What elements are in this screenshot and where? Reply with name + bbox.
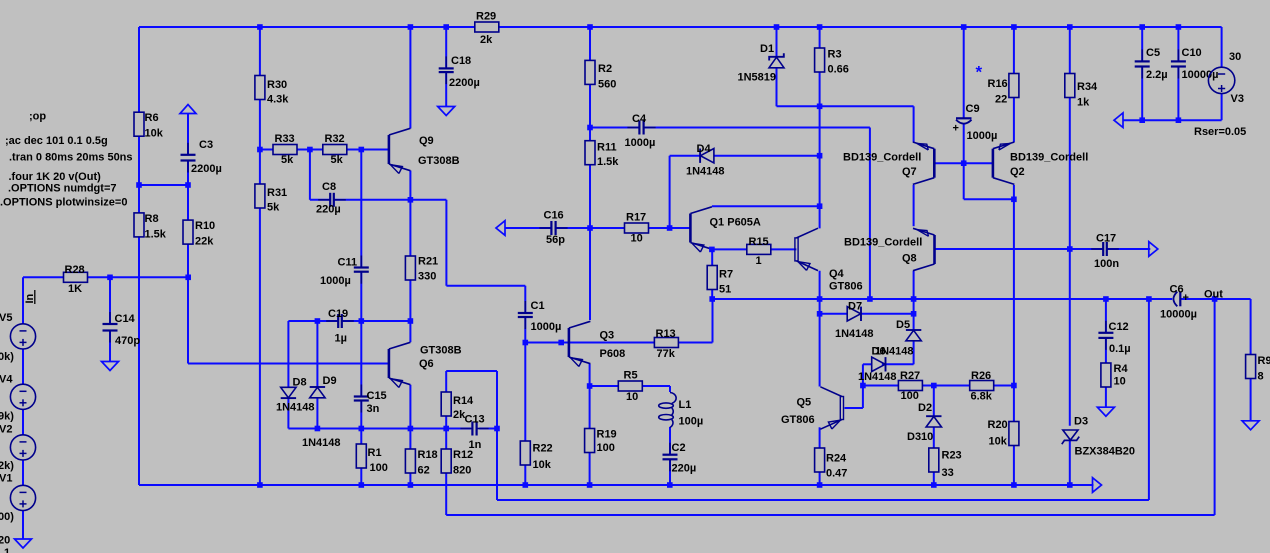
wire C3 to junction	[187, 161, 189, 185]
svg-text:*: *	[976, 63, 983, 82]
directive options2	[0, 197, 127, 209]
junction	[1067, 246, 1073, 252]
svg-text:Q3: Q3	[600, 330, 615, 342]
svg-text:2k): 2k)	[0, 460, 14, 472]
capacitor C18	[439, 55, 480, 89]
net label Out	[1204, 289, 1223, 301]
wire R13 corner up	[712, 299, 714, 343]
wire bottom ground bus	[139, 484, 1094, 486]
svg-text:20: 20	[0, 535, 10, 547]
resistor R3	[815, 48, 849, 76]
resistor R26	[970, 370, 994, 403]
junction	[315, 318, 321, 324]
diode D8 1N4148	[281, 387, 296, 398]
svg-text:Q8: Q8	[902, 253, 917, 265]
wire R14 top leg	[445, 371, 447, 392]
wire Q5 base leg	[862, 386, 864, 409]
svg-text:GT806: GT806	[829, 281, 863, 293]
junction	[1139, 117, 1145, 123]
diode D7 1N4148	[847, 307, 861, 321]
wire C13 right	[479, 428, 497, 430]
wire input row R28	[23, 276, 188, 278]
wire R12 vertical	[445, 429, 447, 516]
svg-text:+: +	[953, 123, 959, 135]
voltage source V2	[10, 435, 35, 460]
wire V4-V2	[22, 409, 24, 434]
svg-text:R1: R1	[368, 447, 382, 459]
wire C3 flag lead	[187, 114, 189, 155]
svg-text:30: 30	[1229, 51, 1241, 63]
wire C16 right	[556, 227, 590, 229]
svg-text:Rser=0.05: Rser=0.05	[1194, 126, 1246, 138]
wire R5 left	[590, 385, 619, 387]
svg-text:D1: D1	[760, 43, 774, 55]
svg-text:R2: R2	[598, 63, 612, 75]
wire D4 right	[714, 155, 820, 157]
svg-text:R24: R24	[826, 453, 847, 465]
wire R9 bottom	[1250, 379, 1252, 421]
junction	[1011, 197, 1017, 203]
label D5	[896, 319, 910, 331]
net flag bus	[1093, 478, 1102, 493]
junction	[817, 153, 823, 159]
svg-text:4.3k: 4.3k	[267, 94, 289, 106]
wire long feedback row 2	[446, 514, 1214, 516]
junction	[1176, 117, 1182, 123]
svg-text:10: 10	[1114, 376, 1126, 388]
wire R3-Q4 vertical	[819, 27, 821, 228]
svg-text:1K: 1K	[68, 283, 82, 295]
label V1 value	[0, 511, 14, 523]
svg-text:1N4148: 1N4148	[276, 402, 315, 414]
wire Q2 base	[964, 162, 993, 164]
transistor Q9 GT308B	[389, 128, 460, 173]
svg-text:C17: C17	[1096, 233, 1116, 245]
svg-text:C11: C11	[338, 257, 358, 269]
wire D4 left	[670, 155, 701, 157]
resistor R16	[988, 74, 1019, 106]
svg-text:D310: D310	[907, 431, 933, 443]
diode D6 1N4148	[872, 357, 886, 371]
wire R27-R26	[922, 385, 969, 387]
voltage source V3	[1194, 51, 1246, 138]
svg-text:R13: R13	[656, 328, 676, 340]
svg-text:.OPTIONS plotwinsize=0: .OPTIONS plotwinsize=0	[0, 197, 127, 209]
svg-text:R3: R3	[828, 49, 842, 61]
wire C15-R1-bus	[360, 401, 362, 485]
junction	[443, 426, 449, 432]
svg-text:10: 10	[631, 233, 643, 245]
junction	[408, 197, 414, 203]
wire C1 top	[524, 286, 526, 313]
svg-text:R14: R14	[453, 395, 474, 407]
wire Q3 emitter	[589, 364, 591, 386]
svg-text:+: +	[1183, 292, 1189, 304]
svg-text:R6: R6	[145, 112, 159, 124]
svg-text:L1: L1	[679, 399, 692, 411]
svg-text:00): 00)	[0, 511, 14, 523]
diode D4 1N4148	[700, 149, 714, 163]
wire C8 right to corner	[334, 199, 446, 201]
resistor R21	[405, 256, 438, 283]
junction	[709, 247, 715, 253]
label D7	[848, 301, 862, 313]
junction	[1011, 482, 1017, 488]
junction	[587, 383, 593, 389]
wire Q8 collector	[913, 271, 915, 314]
wire R26 right	[994, 385, 1014, 387]
wire D8 top leg	[287, 321, 289, 387]
wire D7 left	[820, 313, 848, 315]
label D2 value	[907, 431, 933, 443]
svg-text:1k: 1k	[1077, 97, 1090, 109]
svg-text:5k: 5k	[281, 154, 294, 166]
capacitor C4	[625, 113, 656, 149]
diode D1 1N5819	[738, 43, 785, 84]
wire R15 right to Q4	[771, 248, 797, 250]
wire R30-R31 vertical	[259, 27, 261, 485]
capacitor C19	[326, 308, 354, 345]
resistor R32	[323, 133, 347, 166]
svg-text:P608: P608	[600, 348, 626, 360]
junction	[107, 275, 113, 281]
svg-text:.four 1K 20 v(Out): .four 1K 20 v(Out)	[9, 171, 102, 183]
ground C14	[102, 362, 119, 371]
resistor R13	[654, 328, 678, 360]
wire R6-C3 row	[139, 184, 188, 186]
junction	[359, 482, 365, 488]
voltage source V5	[10, 324, 35, 349]
annotation star	[976, 63, 983, 82]
svg-text:0.66: 0.66	[828, 64, 849, 76]
wire C12 top	[1105, 299, 1107, 332]
svg-text:C14: C14	[115, 313, 136, 325]
wire top supply rail	[139, 26, 1222, 28]
junction	[523, 482, 529, 488]
wire Q1 collector row	[712, 205, 820, 207]
junction	[558, 340, 564, 346]
svg-text:470p: 470p	[115, 335, 140, 347]
power flag C3	[180, 105, 196, 114]
transistor Q4 GT806	[795, 228, 863, 292]
svg-text:C13: C13	[465, 414, 485, 426]
svg-text:D8: D8	[293, 377, 307, 389]
wire R21 bottom	[409, 278, 411, 321]
transistor Q7 BD139_Cordell	[843, 142, 934, 184]
svg-text:.tran 0 80ms 20ms 50ns: .tran 0 80ms 20ms 50ns	[9, 152, 133, 164]
wire R21 top	[409, 200, 411, 256]
label V2 value	[0, 460, 14, 472]
svg-text:R31: R31	[267, 187, 287, 199]
junction	[408, 482, 414, 488]
wire Q5 base	[845, 407, 863, 409]
svg-text:C10: C10	[1182, 47, 1202, 59]
junction	[817, 311, 823, 317]
wire R14 bottom leg	[445, 416, 447, 429]
label D4	[697, 143, 712, 155]
wire C18 bottom	[445, 73, 447, 106]
svg-text:R33: R33	[275, 133, 295, 145]
junction	[257, 147, 263, 153]
svg-text:1: 1	[4, 547, 10, 553]
svg-text:R34: R34	[1077, 81, 1098, 93]
junction	[961, 160, 967, 166]
resistor R7	[707, 266, 733, 296]
wire C5 bottom	[1141, 67, 1143, 120]
svg-text:R4: R4	[1114, 363, 1129, 375]
svg-text:820: 820	[453, 465, 471, 477]
wire down to rail	[869, 128, 871, 300]
junction	[817, 104, 823, 110]
wire L1-C2	[669, 427, 671, 454]
capacitor C2	[663, 442, 697, 475]
junction	[408, 426, 414, 432]
svg-text:R23: R23	[942, 450, 962, 462]
junction	[359, 318, 365, 324]
svg-text:1000µ: 1000µ	[967, 130, 998, 142]
junction	[1212, 296, 1218, 302]
wire Q9 collector	[409, 27, 411, 129]
resistor R19	[585, 429, 617, 455]
resistor R6	[134, 112, 164, 140]
svg-text:10: 10	[626, 391, 638, 403]
junction	[709, 296, 715, 302]
wire Q2 collector down	[1013, 185, 1015, 386]
svg-text:D3: D3	[1074, 416, 1088, 428]
net label In	[24, 290, 36, 304]
resistor R22	[520, 441, 552, 471]
svg-text:1N5819: 1N5819	[738, 72, 777, 84]
wire V3 bottom row	[1123, 119, 1222, 121]
svg-text:BD139_Cordell: BD139_Cordell	[843, 152, 921, 164]
wire L1 top	[669, 386, 671, 392]
wire Q7 emitter stub	[913, 106, 915, 142]
wire C19 row right	[342, 320, 410, 322]
junction	[1176, 24, 1182, 30]
ground R9	[1242, 421, 1259, 430]
wire D2-R23-bus	[933, 427, 935, 485]
wire R7 vertical	[711, 249, 713, 299]
wire long feedback row 1	[497, 499, 1149, 501]
svg-text:220µ: 220µ	[316, 204, 341, 216]
svg-text:R30: R30	[267, 79, 287, 91]
svg-text:6.8k: 6.8k	[971, 391, 993, 403]
wire Q7 base	[934, 162, 963, 164]
junction	[307, 147, 313, 153]
svg-text:5k: 5k	[331, 154, 344, 166]
label D9 value	[302, 437, 341, 449]
resistor R12	[441, 449, 473, 477]
junction	[911, 296, 917, 302]
wire R14 loop top	[446, 370, 497, 372]
svg-text:Q5: Q5	[797, 397, 812, 409]
svg-text:1000µ: 1000µ	[625, 137, 656, 149]
ground sources	[15, 539, 32, 548]
junction	[587, 125, 593, 131]
svg-text:C12: C12	[1109, 321, 1129, 333]
wire corner down	[445, 200, 447, 286]
wire V5-V4	[22, 349, 24, 384]
resistor R8	[134, 213, 167, 241]
wire C10 bottom	[1177, 67, 1179, 120]
wire C2 bottom	[669, 460, 671, 485]
junction	[667, 482, 673, 488]
svg-text:R5: R5	[624, 370, 638, 382]
junction	[1139, 24, 1145, 30]
wire D3 bottom	[1069, 441, 1071, 485]
wire D5 top	[913, 314, 915, 330]
svg-text:0.47: 0.47	[826, 468, 847, 480]
svg-text:R16: R16	[988, 78, 1008, 90]
svg-text:.OPTIONS numdgt=7: .OPTIONS numdgt=7	[8, 183, 116, 195]
svg-text:GT806: GT806	[781, 414, 815, 426]
svg-text:BD139_Cordell: BD139_Cordell	[1010, 152, 1088, 164]
wire V3 top	[1221, 27, 1223, 68]
wire D5 bottom	[913, 341, 915, 364]
junction	[359, 426, 365, 432]
svg-text:R9: R9	[1258, 355, 1270, 367]
wire D6 left	[863, 363, 872, 365]
wire Q6 base row	[188, 363, 389, 365]
svg-text:100: 100	[901, 390, 919, 402]
svg-text:100: 100	[370, 462, 388, 474]
wire Q6 collector stub	[409, 321, 411, 342]
svg-text:C9: C9	[966, 103, 980, 115]
wire D4 leg	[669, 156, 671, 228]
wire D7 right	[861, 313, 913, 315]
capacitor C16	[539, 210, 567, 247]
junction	[1067, 482, 1073, 488]
label D8	[293, 377, 307, 389]
wire R5 right	[642, 385, 670, 387]
svg-text:1n: 1n	[469, 439, 482, 451]
wire R27 left	[863, 385, 899, 387]
junction	[817, 203, 823, 209]
svg-text:1: 1	[756, 255, 762, 267]
junction	[185, 182, 191, 188]
svg-text:10000µ: 10000µ	[1160, 309, 1197, 321]
capacitor C11	[320, 256, 369, 288]
junction	[1067, 24, 1073, 30]
directive tran	[9, 152, 133, 164]
net flag C16 input	[496, 221, 505, 236]
svg-text:D4: D4	[697, 143, 712, 155]
svg-text:8: 8	[1258, 371, 1264, 383]
wire C19 row left	[288, 320, 337, 322]
svg-text:C2: C2	[672, 442, 686, 454]
wire R16 vertical	[1013, 27, 1015, 142]
capacitor C14	[103, 312, 141, 347]
svg-text:D9: D9	[323, 375, 337, 387]
voltage source V1	[10, 485, 35, 510]
svg-text:R26: R26	[971, 370, 991, 382]
wire C17 right	[1107, 248, 1150, 250]
wire C4 right	[644, 127, 870, 129]
resistor R29	[475, 11, 499, 47]
svg-text:GT308B: GT308B	[418, 155, 460, 167]
svg-text:10k: 10k	[145, 128, 164, 140]
junction	[587, 24, 593, 30]
capacitor C13	[460, 414, 488, 452]
wire Q7-Q8 link	[913, 185, 915, 226]
svg-text:330: 330	[418, 271, 436, 283]
transistor Q8 BD139_Cordell	[844, 228, 935, 270]
label stray text 2	[4, 547, 10, 553]
svg-text:R17: R17	[626, 212, 646, 224]
svg-text:62: 62	[418, 465, 430, 477]
wire left vertical x139	[138, 27, 140, 485]
wire C10 top	[1177, 27, 1179, 61]
directive options1	[8, 183, 116, 195]
svg-text:220µ: 220µ	[672, 463, 697, 475]
wire Q9 emitter	[409, 171, 411, 200]
svg-text:R18: R18	[418, 449, 438, 461]
resistor R2	[585, 60, 616, 90]
svg-text:V1: V1	[0, 473, 12, 485]
wire R10 vertical	[187, 185, 189, 364]
junction	[911, 311, 917, 317]
label D6 value	[858, 371, 897, 383]
directive four	[9, 171, 102, 183]
wire C9 bottom	[963, 125, 965, 200]
wire R19 vertical	[589, 386, 591, 485]
svg-text:Q7: Q7	[902, 166, 917, 178]
svg-text:1N4148: 1N4148	[686, 166, 725, 178]
svg-text:D7: D7	[848, 301, 862, 313]
svg-text:R32: R32	[325, 133, 345, 145]
label D7 value	[835, 328, 874, 340]
capacitor C8	[316, 181, 346, 216]
wire Q8 base C17 row	[935, 248, 1104, 250]
svg-text:10k: 10k	[533, 459, 552, 471]
resistor R9	[1246, 355, 1270, 383]
svg-text:R20: R20	[988, 419, 1008, 431]
svg-text:100n: 100n	[1094, 258, 1119, 270]
wire riser 1	[1148, 299, 1150, 500]
junction	[1011, 383, 1017, 389]
wire D2 top	[933, 386, 935, 417]
resistor R15	[747, 236, 771, 267]
junction	[257, 482, 263, 488]
wire C16 left	[505, 227, 551, 229]
svg-text:2.2µ: 2.2µ	[1146, 69, 1168, 81]
label D5 value	[875, 346, 914, 358]
diode D9 1N4148	[310, 387, 325, 398]
svg-text:C19: C19	[328, 308, 348, 320]
wire Q4 emitter to Q5 collector	[819, 271, 821, 387]
svg-text:22: 22	[995, 94, 1007, 106]
junction	[961, 24, 967, 30]
wire R33-R32 row	[260, 149, 389, 151]
svg-text:33: 33	[942, 467, 954, 479]
wire D9 top leg	[316, 321, 318, 387]
svg-text:R28: R28	[65, 264, 85, 276]
svg-text:Q2: Q2	[1010, 166, 1025, 178]
svg-text:0.1µ: 0.1µ	[1109, 343, 1131, 355]
diode D2 D310	[926, 416, 941, 427]
svg-text:1N4148: 1N4148	[858, 371, 897, 383]
wire V3 bottom	[1221, 93, 1223, 120]
svg-text:56p: 56p	[546, 234, 565, 246]
label V4 value	[0, 411, 14, 423]
junction	[494, 426, 500, 432]
svg-text:V5: V5	[0, 312, 12, 324]
label V4	[0, 374, 13, 386]
svg-text:2200µ: 2200µ	[449, 77, 480, 89]
wire C8 left	[310, 199, 330, 201]
wire C11-C15	[360, 272, 362, 396]
junction	[185, 275, 191, 281]
